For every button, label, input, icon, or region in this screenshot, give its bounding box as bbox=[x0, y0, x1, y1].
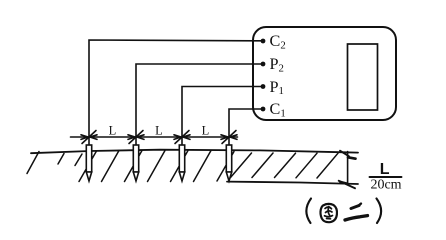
terminal C1 bbox=[261, 107, 266, 112]
wire C1 to electrode E4 bbox=[229, 109, 261, 145]
caption right parenthesis bbox=[377, 199, 382, 224]
dimension line between electrodes bbox=[71, 136, 238, 138]
electrode E3 bbox=[179, 145, 184, 181]
svg-text:L: L bbox=[155, 124, 163, 138]
svg-text:L: L bbox=[109, 124, 117, 138]
wire P2 to electrode E2 bbox=[136, 64, 261, 145]
svg-text:20cm: 20cm bbox=[370, 178, 401, 193]
terminal P2 bbox=[261, 62, 266, 67]
caption left parenthesis bbox=[306, 199, 311, 224]
dimension tick at E2 bbox=[128, 131, 144, 144]
electrode E4 bbox=[226, 145, 231, 181]
wire C2 to electrode E1 bbox=[89, 40, 261, 145]
wire P1 to electrode E3 bbox=[182, 87, 261, 146]
dimension tick at E4 bbox=[221, 131, 237, 144]
svg-text:L: L bbox=[380, 161, 390, 178]
caption character tu (figure) bbox=[320, 204, 337, 222]
meter display window bbox=[348, 44, 378, 110]
ground hatching bbox=[27, 151, 338, 182]
electrode E2 bbox=[133, 145, 138, 181]
dimension tick at E1 bbox=[81, 131, 97, 144]
electrode E1 bbox=[86, 145, 91, 181]
terminal P1 bbox=[261, 84, 266, 89]
earth tester instrument box U1 bbox=[253, 27, 396, 120]
terminal C2 bbox=[261, 39, 266, 44]
dimension tick at E3 bbox=[174, 131, 190, 144]
fraction bar of L/20cm bbox=[370, 176, 402, 178]
svg-text:L: L bbox=[202, 124, 210, 138]
ground bottom line bbox=[227, 182, 358, 184]
caption character er (two) bbox=[345, 204, 368, 220]
ground surface line bbox=[31, 150, 358, 154]
depth dimension line at right bbox=[339, 151, 356, 189]
